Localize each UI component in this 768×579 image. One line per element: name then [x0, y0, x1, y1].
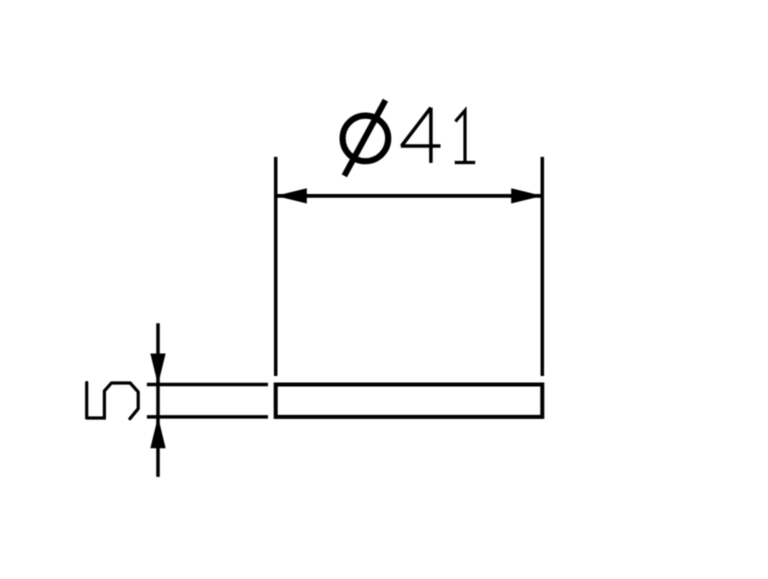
part outline: disc side view rectangle [276, 385, 543, 417]
arrowhead right (dim Ø41) [511, 188, 542, 203]
extension line left (dim Ø41) [274, 157, 278, 376]
extension line top (dim 5) [147, 383, 268, 387]
extension line right (dim Ø41) [541, 157, 545, 376]
arrowhead pointing down (dim 5) [150, 354, 165, 385]
dimension text Ø41: digit 1 [455, 111, 476, 163]
dimension text Ø41: digit 4 [401, 108, 441, 163]
dimension line Ø41 [276, 194, 543, 198]
arrowhead left (dim Ø41) [276, 188, 307, 203]
dimension text Ø41: diameter symbol circle [343, 116, 389, 162]
arrowhead pointing up (dim 5) [150, 417, 165, 449]
dimension text Ø41: diameter symbol slash [344, 100, 385, 176]
dimension line (dim 5, continuous vertical) [156, 323, 160, 477]
dimension text 5 (rotated 90° ccw) [87, 383, 139, 419]
extension line bottom (dim 5) [147, 415, 268, 419]
